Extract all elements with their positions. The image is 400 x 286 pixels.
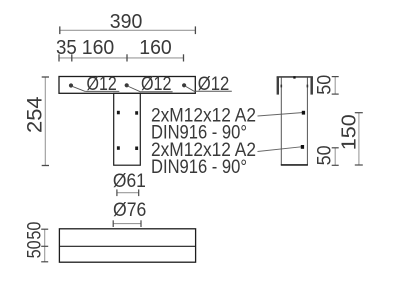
leader to lower side-view screw	[258, 147, 303, 152]
svg-text:50: 50	[315, 145, 336, 165]
hole 2 in plate	[125, 83, 129, 87]
dimension 35 160 160	[59, 57, 184, 59]
label Ø12 #2	[128, 86, 141, 92]
top plate edge line	[277, 76, 313, 78]
hole 3 in plate	[182, 83, 186, 87]
svg-text:254: 254	[24, 96, 47, 133]
svg-text:Ø12: Ø12	[87, 74, 117, 95]
label Ø12 #1	[72, 86, 85, 91]
svg-text:160: 160	[82, 37, 115, 59]
hole marks on stem edges	[281, 85, 283, 88]
right flange bar	[310, 77, 313, 95]
dimension 150	[358, 113, 360, 166]
dimension 50/50 (bottom left)	[44, 229, 46, 262]
svg-text:390: 390	[110, 11, 143, 33]
svg-text:50: 50	[24, 222, 45, 240]
svg-text:DIN916 - 90°: DIN916 - 90°	[151, 157, 247, 178]
svg-text:Ø76: Ø76	[113, 200, 146, 221]
leader to upper side-view screw	[258, 113, 304, 117]
label Ø12 #3	[185, 86, 194, 91]
top plate rectangle	[59, 77, 195, 94]
svg-text:35: 35	[56, 37, 77, 59]
top center mark	[293, 76, 295, 78]
svg-text:Ø12: Ø12	[198, 74, 230, 95]
mid line	[59, 245, 195, 247]
dimension 390	[60, 29, 196, 31]
lower set screw	[301, 145, 304, 149]
svg-text:150: 150	[339, 114, 361, 150]
stem rectangle	[114, 93, 141, 165]
dimension 50 (top right)	[334, 76, 336, 94]
dimension 254 (left, vertical)	[44, 77, 46, 166]
set screws in stem (4 small marks)	[117, 111, 120, 115]
svg-text:Ø12: Ø12	[141, 74, 172, 95]
svg-text:50: 50	[315, 75, 336, 95]
stem side edges	[280, 77, 282, 165]
left flange bar	[277, 77, 279, 95]
stem bottom edge	[281, 164, 308, 166]
svg-text:50: 50	[24, 240, 45, 258]
svg-text:Ø61: Ø61	[113, 171, 146, 192]
svg-text:160: 160	[139, 37, 172, 59]
hole 1 in plate	[69, 83, 73, 87]
dimension 50 (bottom right)	[334, 148, 336, 166]
upper set screw	[302, 111, 305, 115]
